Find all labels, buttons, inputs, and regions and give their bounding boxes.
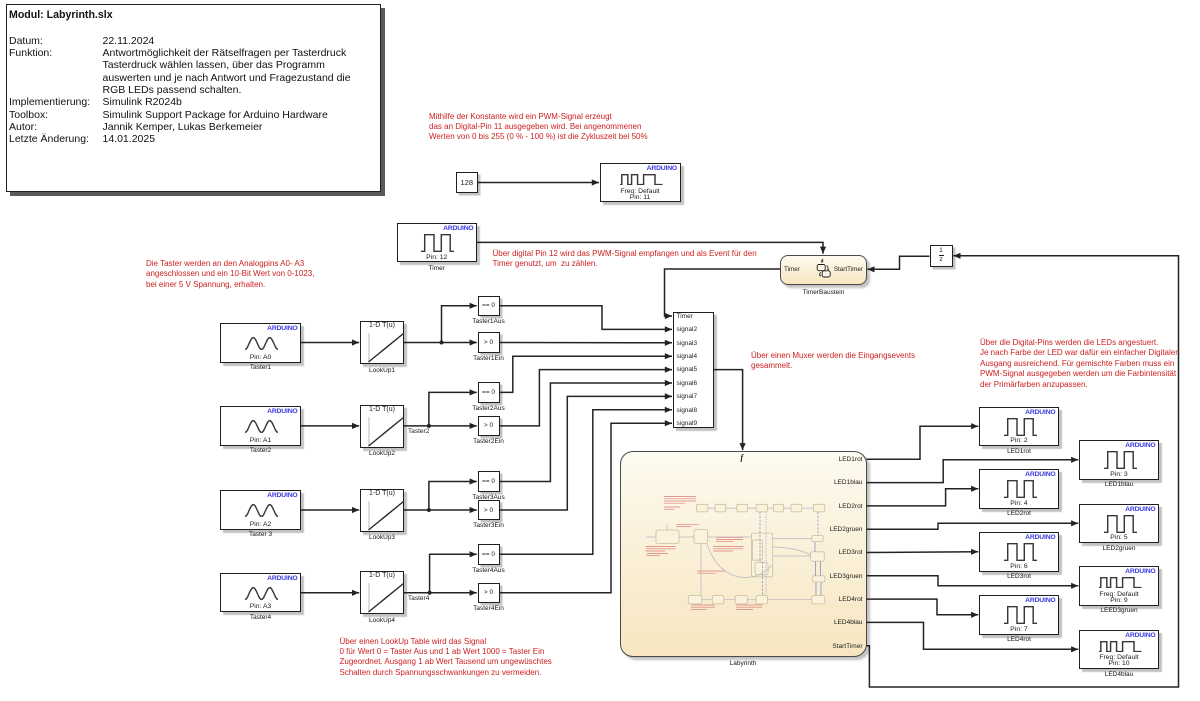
label LED3rot <box>1007 573 1031 580</box>
label Taster4Ein <box>473 605 504 612</box>
wire LED1blau output wire <box>867 457 1079 483</box>
label LookUp1 <box>369 367 395 374</box>
mini red texts <box>646 497 763 610</box>
junction junction LookUp4 <box>428 591 432 595</box>
compare block Taster2Ein <box>478 416 500 437</box>
block Taster1 <box>220 323 301 363</box>
compare block Taster4Ein <box>478 583 500 604</box>
wire branch to Taster2Aus <box>429 389 477 426</box>
signal label Taster4 <box>408 595 429 602</box>
label LEED3gruen <box>1100 607 1137 614</box>
wire TimerBaustein Timer to mux <box>665 269 781 319</box>
annotation Muxer <box>751 351 915 372</box>
unit delay 1/z <box>930 245 953 268</box>
wire LookUp4 to Taster4Ein <box>404 590 477 596</box>
wire Taster2 to LookUp2 <box>301 423 359 429</box>
block LED1rot <box>979 407 1059 447</box>
label LookUp2 <box>369 450 395 457</box>
block LED2gruen <box>1079 504 1159 544</box>
label Taster4Aus <box>472 567 505 574</box>
label Taster1 <box>250 364 271 371</box>
block LED3rot <box>979 532 1059 572</box>
wire wire Taster2Aus to signal4 <box>500 353 673 392</box>
label Taster4 <box>250 614 271 621</box>
label Taster3 <box>249 531 272 538</box>
junction junction LookUp1 <box>440 341 444 345</box>
wire branch to Taster1Aus <box>442 303 477 343</box>
annotation PWM-Konstante <box>429 112 648 143</box>
label LED2gruen <box>1103 545 1136 552</box>
block LED2rot <box>979 469 1059 509</box>
wire wire Taster1Ein to signal3 <box>500 340 673 346</box>
block LookUp3 <box>360 489 404 532</box>
wire Labyrinth StartTimer feedback to unit delay <box>867 253 1179 687</box>
wire LED4blau output wire <box>867 622 1079 652</box>
mini wires <box>646 508 813 600</box>
label Taster2Ein <box>473 438 504 445</box>
wire branch to Taster3Aus <box>429 478 477 510</box>
label LookUp4 <box>369 617 395 624</box>
label Taster2Aus <box>472 405 505 412</box>
label Timer Pin12 <box>429 265 445 272</box>
wire LookUp2 to Taster2Ein <box>404 423 477 429</box>
wire LookUp1 to Taster1Ein <box>404 339 477 345</box>
block LED4blau <box>1079 630 1159 670</box>
compare block Taster1Ein <box>478 332 500 353</box>
signal label Taster2 <box>408 428 429 435</box>
wire LED3gruen output wire <box>867 576 1079 589</box>
compare block Taster3Aus <box>478 471 500 492</box>
label LookUp3 <box>369 534 395 541</box>
block LEED3gruen <box>1079 566 1159 606</box>
wire Taster1 to LookUp1 <box>301 339 359 345</box>
wire Timer to TimerBaustein trigger <box>477 242 826 253</box>
wire Taster4 to LookUp4 <box>301 590 359 596</box>
wire 128 to PWM Pin11 <box>478 179 600 185</box>
label Taster1Aus <box>472 318 505 325</box>
block Taster4 <box>220 573 301 613</box>
label LED1rot <box>1007 448 1031 455</box>
wire wire Taster2Ein to signal5 <box>500 367 673 426</box>
constant 128 <box>456 172 478 193</box>
block LookUp1 <box>360 321 404 364</box>
label LED4blau <box>1105 671 1134 678</box>
wire LED1rot output wire <box>867 423 979 459</box>
wire wire Taster4Ein to signal9 <box>500 420 673 593</box>
label Labyrinth <box>730 660 757 667</box>
junction junction LookUp3 <box>427 508 431 512</box>
junction junction LookUp2 <box>427 424 431 428</box>
block Timer Pin12 <box>397 223 478 262</box>
mini bottom row blocks <box>688 596 825 604</box>
compare block Taster3Ein <box>478 500 500 521</box>
subsystem TimerBaustein <box>780 255 867 285</box>
compare block Taster1Aus <box>478 296 500 317</box>
mux block Eingangsevents <box>673 312 715 429</box>
mini mid blocks <box>656 530 825 583</box>
info box Modul: Labyrinth.slx <box>6 4 381 192</box>
wire branch to Taster4Aus <box>430 551 477 593</box>
wire mux to Labyrinth trigger <box>714 370 746 451</box>
wire Taster3 to LookUp3 <box>301 507 359 513</box>
annotation LookUp <box>340 637 552 679</box>
label TimerBaustein <box>803 289 845 296</box>
wire LED4rot output wire <box>867 599 979 618</box>
label Taster3Ein <box>473 522 504 529</box>
wire wire Taster3Aus to signal6 <box>500 380 673 482</box>
wire wire Taster3Ein to signal7 <box>500 393 673 510</box>
label LED4rot <box>1007 636 1031 643</box>
label Taster2 <box>250 447 271 454</box>
wire wire Taster4Aus to signal8 <box>500 407 673 555</box>
wire LookUp3 to Taster3Ein <box>404 507 477 513</box>
annotation Pin12 <box>493 249 757 270</box>
mini top row blocks <box>697 504 825 512</box>
block PWM Pin11 <box>600 163 681 202</box>
subsystem Labyrinth <box>620 451 867 657</box>
block LookUp4 <box>360 571 404 614</box>
label Taster1Ein <box>473 355 504 362</box>
wire LED2rot output wire <box>867 486 979 506</box>
wire LED2gruen output wire <box>867 520 1079 529</box>
wire LED3rot output wire <box>867 549 979 555</box>
annotation Taster <box>146 259 314 290</box>
block LookUp2 <box>360 405 404 448</box>
compare block Taster2Aus <box>478 382 500 403</box>
label Taster3Aus <box>472 494 505 501</box>
block Taster2 <box>220 406 301 446</box>
block Taster3 <box>220 490 301 530</box>
compare block Taster4Aus <box>478 544 500 565</box>
block LED4rot <box>979 595 1059 635</box>
label LED2rot <box>1007 510 1031 517</box>
wire wire Taster1Aus to signal2 <box>500 306 673 333</box>
block LED1blau <box>1079 440 1159 480</box>
label LED1blau <box>1105 481 1134 488</box>
annotation LEDs <box>980 338 1178 390</box>
wire unit delay to TimerBaustein StartTimer <box>867 256 929 272</box>
mini dashed lines <box>760 512 821 596</box>
